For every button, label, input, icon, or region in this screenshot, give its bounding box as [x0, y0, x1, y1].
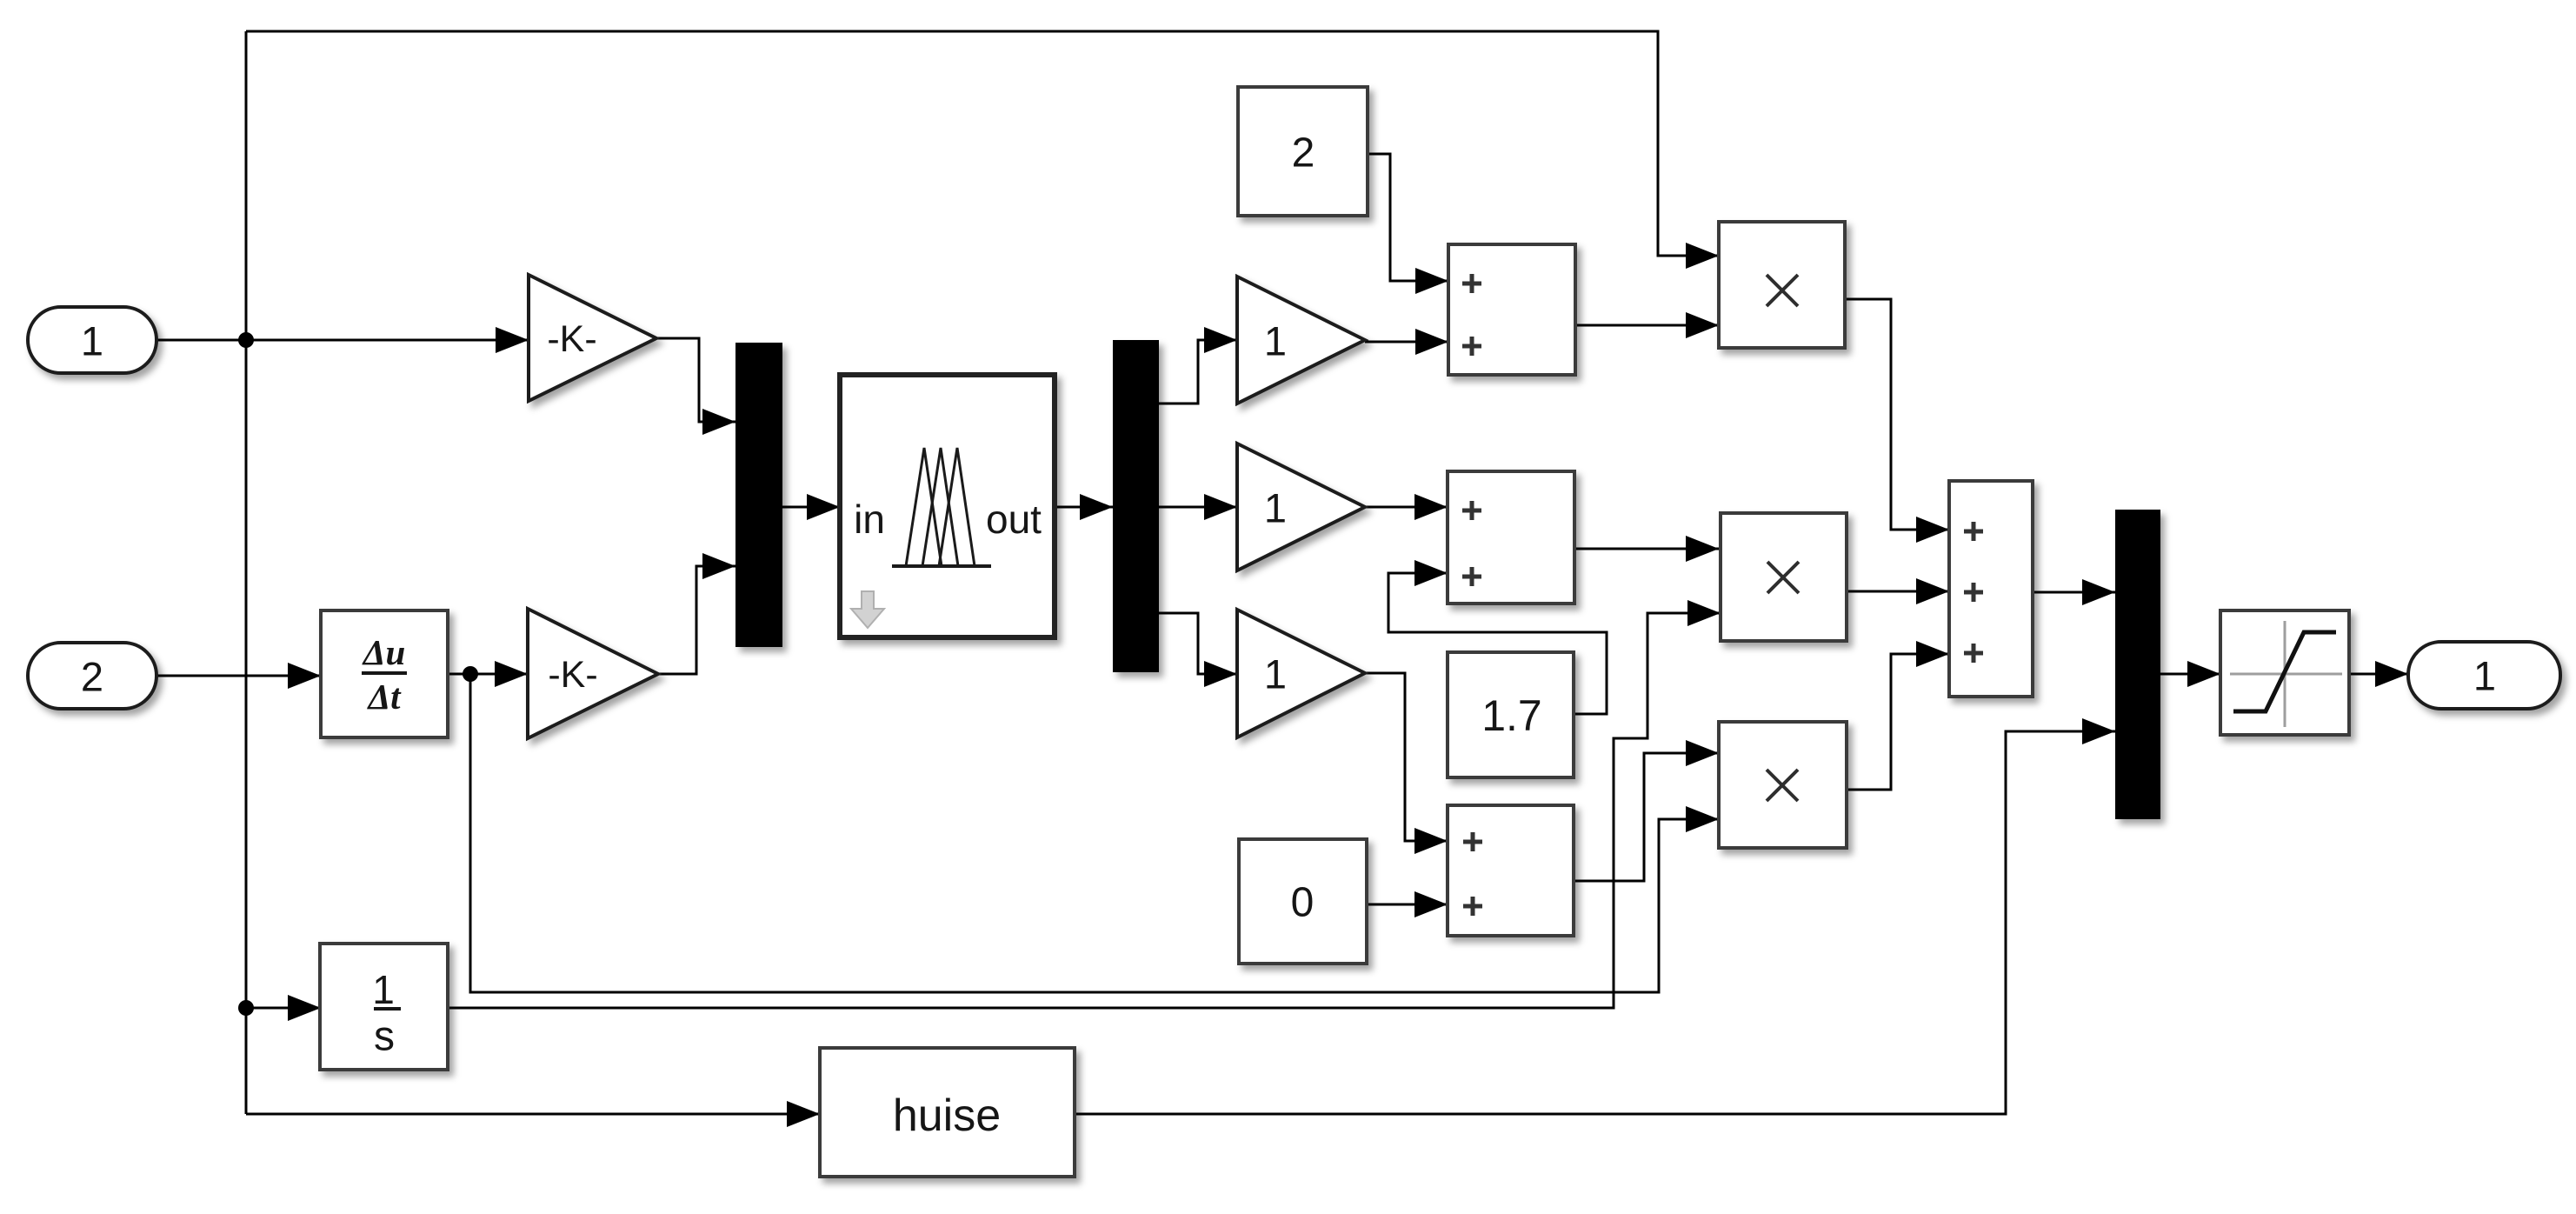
wire gain G4 to sum S2 input 1 — [1365, 506, 1448, 509]
wire constant 1.7 to sum S2 input 2 — [1388, 573, 1607, 714]
product P2 — [1721, 513, 1847, 641]
wire product P2 to sum S4 input 2 — [1847, 590, 1949, 593]
huise block — [820, 1048, 1075, 1177]
wire sum S2 to product P2 input 1 — [1574, 548, 1719, 550]
wire mux M1 to fuzzy block — [782, 506, 840, 509]
saturation block — [2220, 610, 2349, 735]
derivative block du/dt — [321, 610, 448, 737]
input port 1 — [28, 307, 156, 373]
gain G2 -K- — [528, 609, 658, 738]
wire demux out1 to gain G3 — [1159, 340, 1237, 404]
wire sum S4 to mux M2 input 1 — [2033, 591, 2115, 594]
arrowheads — [288, 243, 2408, 1127]
wire product P3 to sum S4 input 3 — [1847, 654, 1949, 790]
wire node B down to product P3 input 2 — [470, 674, 1719, 992]
product P3 — [1719, 722, 1847, 848]
sum S3 — [1448, 805, 1574, 936]
output port 1 — [2408, 642, 2560, 709]
product P1 — [1719, 222, 1845, 348]
wire gain G5 to sum S3 input 1 — [1365, 673, 1448, 841]
sum S4 — [1949, 481, 2033, 697]
wire sum S3 to product P3 input 1 — [1574, 753, 1719, 881]
wire left vertical trunk from node A — [245, 31, 248, 1114]
node C junction dot — [238, 1000, 254, 1016]
mux M1 — [736, 343, 782, 647]
fuzzy logic controller block — [840, 375, 1055, 637]
fuzzy membership triangles — [892, 448, 991, 566]
wire sum S1 to product P1 input 2 — [1575, 324, 1719, 327]
wire node A down to huise — [246, 1113, 820, 1116]
svg-text:s: s — [374, 1014, 395, 1060]
svg-text:1: 1 — [1264, 651, 1287, 697]
gain G5 value 1 — [1237, 610, 1365, 737]
wire constant 0 to sum S3 input 2 — [1367, 904, 1448, 906]
sum S2 — [1448, 471, 1574, 604]
constant 2 — [1238, 87, 1368, 216]
wire fuzzy block to demux — [1055, 506, 1113, 509]
wire top feed to product P1 input 1 — [246, 31, 1719, 256]
gain G3 value 1 — [1237, 277, 1365, 404]
svg-text:1.7: 1.7 — [1481, 691, 1542, 740]
constant 1.7 — [1448, 652, 1574, 777]
wire node C to integrator — [246, 1007, 321, 1010]
wire demux out3 to gain G5 — [1159, 613, 1237, 674]
wire product P1 to sum S4 input 1 — [1845, 299, 1949, 530]
wire constant 2 to sum S1 input 1 — [1368, 154, 1448, 281]
wire in1 to gain1 — [156, 339, 529, 342]
svg-text:out: out — [986, 497, 1042, 542]
svg-text:in: in — [854, 497, 885, 542]
integrator 1/s — [320, 944, 448, 1070]
mux M2 — [2115, 510, 2160, 819]
wire huise to mux M2 input 2 — [1075, 731, 2115, 1114]
svg-text:1: 1 — [1264, 318, 1287, 364]
wire demux out2 to gain G4 — [1159, 506, 1237, 509]
sum S1 — [1448, 244, 1575, 375]
fuzzy gray drop arrow — [851, 591, 884, 628]
wire mux M2 to saturation — [2160, 673, 2220, 676]
svg-text:Δu: Δu — [362, 632, 406, 672]
demux — [1113, 340, 1159, 672]
svg-text:huise: huise — [893, 1091, 1001, 1141]
gain G4 value 1 — [1237, 444, 1365, 570]
wire in2 to derivative — [156, 675, 321, 677]
svg-text:-K-: -K- — [547, 318, 596, 360]
wire saturation to out1 — [2349, 673, 2408, 676]
wire derivative to gain G2 — [448, 673, 528, 676]
wire integrator to product P2 input 2 — [448, 613, 1721, 1008]
svg-text:-K-: -K- — [548, 654, 597, 696]
node A junction dot — [238, 332, 254, 348]
svg-text:2: 2 — [81, 654, 103, 700]
input port 2 — [28, 643, 156, 709]
gain G1 -K- — [529, 275, 656, 401]
svg-text:0: 0 — [1291, 880, 1315, 926]
wire gain G1 to mux M1 input 1 — [656, 338, 736, 422]
svg-text:1: 1 — [372, 967, 395, 1012]
svg-text:2: 2 — [1292, 130, 1315, 177]
wire gain G2 to mux M1 input 2 — [658, 566, 736, 674]
svg-text:Δt: Δt — [366, 677, 402, 717]
svg-text:1: 1 — [2473, 653, 2496, 699]
node B junction dot — [463, 666, 478, 682]
svg-text:1: 1 — [1264, 485, 1287, 531]
svg-text:1: 1 — [81, 318, 103, 364]
wire gain G3 to sum S1 input 2 — [1365, 341, 1448, 344]
constant 0 — [1239, 839, 1367, 964]
